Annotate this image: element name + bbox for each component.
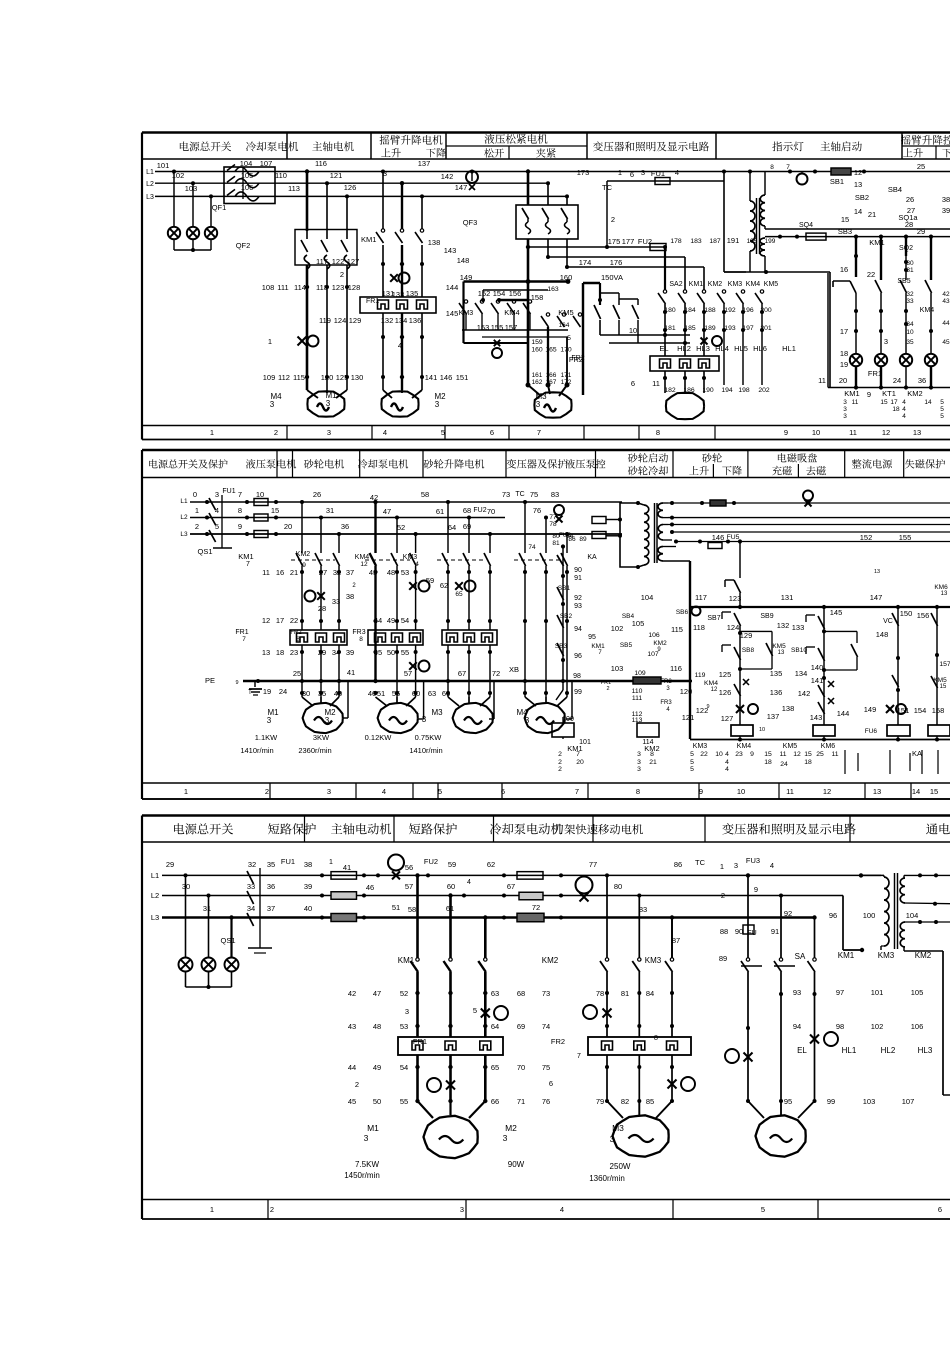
fast branch drops — [605, 873, 674, 958]
svg-text:93: 93 — [793, 988, 801, 997]
lamp number row1 — [664, 307, 772, 314]
svg-text:KM1: KM1 — [844, 389, 859, 398]
svg-text:96: 96 — [829, 911, 837, 920]
svg-text:8: 8 — [770, 164, 774, 171]
start column KM3 upper — [725, 539, 742, 607]
switch QS1 panel2 — [197, 495, 232, 556]
svg-text:132: 132 — [777, 621, 790, 630]
M2 mid wires — [381, 245, 424, 297]
svg-text:90W: 90W — [508, 1160, 525, 1169]
svg-text:17: 17 — [276, 616, 284, 625]
lift contacts — [514, 544, 568, 566]
switch SA p3 — [719, 952, 816, 972]
pump numbers r3 — [262, 648, 354, 678]
svg-text:QF3: QF3 — [463, 218, 478, 227]
rail L3 panel1 — [146, 194, 567, 201]
number 163 label — [547, 286, 559, 293]
svg-text:158: 158 — [531, 293, 544, 302]
coil VC p2 — [864, 705, 910, 739]
svg-text:118: 118 — [693, 623, 705, 632]
signal lamp 3 p1 — [205, 227, 217, 239]
svg-text:FR3: FR3 — [352, 629, 365, 636]
svg-text:3: 3 — [884, 337, 888, 346]
svg-text:20: 20 — [284, 522, 292, 531]
svg-text:99: 99 — [574, 689, 582, 696]
M1 wires — [305, 265, 349, 390]
svg-text:5: 5 — [940, 406, 944, 413]
wheel numbers r1 — [369, 568, 409, 577]
svg-text:102: 102 — [611, 624, 624, 633]
svg-text:L2: L2 — [151, 891, 159, 900]
svg-text:132: 132 — [381, 316, 394, 325]
svg-text:10: 10 — [629, 326, 637, 335]
svg-text:58: 58 — [421, 490, 429, 499]
svg-text:4: 4 — [215, 506, 219, 515]
svg-text:SB3: SB3 — [838, 227, 852, 236]
svg-text:38: 38 — [346, 592, 354, 601]
svg-text:24: 24 — [780, 761, 788, 768]
motor M4 p3 — [756, 1115, 806, 1156]
svg-text:195: 195 — [747, 238, 758, 245]
indicator lamp 1 — [850, 354, 862, 388]
panel 2 header band — [142, 450, 950, 478]
svg-text:FU1: FU1 — [651, 169, 665, 178]
svg-text:156: 156 — [917, 611, 930, 620]
svg-text:89: 89 — [719, 954, 727, 963]
svg-text:6: 6 — [501, 787, 505, 796]
svg-text:18: 18 — [804, 759, 812, 766]
pump numbers r1 — [262, 568, 354, 577]
svg-text:112: 112 — [278, 373, 290, 382]
svg-text:KM3: KM3 — [728, 281, 743, 288]
svg-text:144: 144 — [837, 709, 850, 718]
QF3 branch drops — [526, 169, 569, 205]
svg-text:63: 63 — [491, 989, 499, 998]
svg-text:10: 10 — [715, 751, 723, 758]
svg-text:L2: L2 — [180, 514, 188, 521]
signal lamp 2 p1 — [187, 227, 199, 239]
svg-text:25: 25 — [816, 751, 824, 758]
svg-text:9: 9 — [867, 390, 871, 399]
rail L1 panel1 — [146, 169, 950, 176]
svg-text:71: 71 — [517, 1097, 525, 1106]
svg-text:109: 109 — [263, 373, 276, 382]
svg-text:129: 129 — [349, 316, 362, 325]
svg-text:1: 1 — [329, 859, 333, 866]
svg-text:L3: L3 — [146, 194, 154, 201]
svg-text:84: 84 — [646, 989, 654, 998]
interlock rail — [464, 279, 571, 358]
svg-text:0.75KW: 0.75KW — [415, 733, 443, 742]
svg-text:94: 94 — [793, 1022, 801, 1031]
svg-text:7: 7 — [246, 561, 250, 568]
svg-text:M2: M2 — [505, 1123, 517, 1133]
motor M3 leads — [528, 385, 567, 396]
coil KM2 p2 — [637, 723, 660, 753]
lamp marks p3 — [725, 1032, 838, 1063]
svg-text:91: 91 — [574, 575, 582, 582]
svg-text:65: 65 — [455, 591, 463, 598]
svg-text:25: 25 — [917, 162, 925, 171]
motor C leads — [448, 681, 494, 719]
svg-text:52: 52 — [400, 989, 408, 998]
svg-text:3: 3 — [666, 686, 670, 692]
svg-text:6: 6 — [938, 1205, 942, 1214]
control bus horizontal — [690, 593, 950, 609]
svg-text:11: 11 — [779, 751, 786, 758]
svg-text:KM2: KM2 — [542, 956, 559, 965]
svg-text:16: 16 — [276, 568, 284, 577]
svg-text:97: 97 — [836, 988, 844, 997]
svg-text:3: 3 — [215, 490, 219, 499]
control rail 28 — [765, 220, 950, 229]
svg-text:7: 7 — [238, 490, 242, 499]
motor M2 — [381, 391, 418, 416]
svg-text:FU1: FU1 — [281, 857, 295, 866]
panel 3 footer band — [142, 1200, 950, 1220]
svg-text:35: 35 — [318, 689, 326, 698]
cross ref table p2 — [558, 750, 938, 774]
svg-text:KM2: KM2 — [296, 551, 311, 558]
svg-text:96: 96 — [574, 653, 582, 660]
svg-text:6: 6 — [630, 170, 634, 179]
svg-text:KM3: KM3 — [645, 956, 662, 965]
panel 2 outer frame — [142, 450, 950, 799]
svg-text:SQ2: SQ2 — [899, 245, 913, 252]
svg-text:107: 107 — [260, 159, 273, 168]
svg-text:95: 95 — [784, 1097, 792, 1106]
contactor KM3 p2 — [403, 553, 491, 568]
motor M4 leads p3 — [748, 1101, 815, 1118]
svg-text:151: 151 — [897, 706, 910, 715]
svg-text:103: 103 — [185, 184, 198, 193]
svg-text:196: 196 — [742, 307, 754, 314]
svg-text:93: 93 — [574, 603, 582, 610]
svg-text:KM3: KM3 — [403, 554, 418, 561]
svg-text:SB7: SB7 — [707, 615, 720, 622]
svg-text:13: 13 — [941, 591, 948, 597]
panel 3 outer frame — [142, 816, 950, 1220]
svg-text:67: 67 — [458, 669, 466, 678]
indicator lamp 3 — [900, 354, 912, 388]
svg-text:152: 152 — [860, 533, 873, 542]
svg-text:9: 9 — [238, 522, 242, 531]
panel 1 outer frame — [142, 133, 950, 440]
svg-text:119: 119 — [695, 672, 706, 679]
svg-text:189: 189 — [704, 325, 716, 332]
main wires upper p3 — [415, 972, 487, 1037]
svg-text:78: 78 — [596, 989, 604, 998]
svg-text:21: 21 — [649, 759, 657, 766]
svg-text:KM3: KM3 — [693, 743, 708, 750]
svg-text:138: 138 — [428, 238, 441, 247]
svg-text:FU2: FU2 — [473, 507, 486, 514]
svg-text:106: 106 — [911, 1022, 924, 1031]
svg-text:37: 37 — [267, 904, 275, 913]
svg-text:36: 36 — [918, 376, 926, 385]
svg-text:HL1: HL1 — [782, 344, 796, 353]
svg-text:KM5: KM5 — [933, 677, 947, 684]
svg-text:5: 5 — [473, 1006, 477, 1015]
numbers 142 147 — [441, 172, 468, 192]
svg-text:53: 53 — [400, 1022, 408, 1031]
svg-text:60: 60 — [412, 689, 420, 698]
motor M2 leads — [383, 390, 422, 398]
svg-text:185: 185 — [684, 325, 696, 332]
svg-text:141: 141 — [425, 373, 438, 382]
svg-text:30: 30 — [182, 882, 190, 891]
svg-text:74: 74 — [528, 544, 536, 551]
lighting motor wires — [663, 371, 706, 393]
svg-text:HL2: HL2 — [677, 344, 691, 353]
svg-text:123: 123 — [332, 283, 345, 292]
clamp contact group 1 — [459, 289, 521, 317]
svg-text:190: 190 — [702, 387, 714, 394]
top rail fittings — [770, 164, 866, 185]
svg-text:VC: VC — [883, 618, 893, 625]
svg-text:7.5KW: 7.5KW — [355, 1160, 379, 1169]
lift wires — [458, 566, 569, 697]
svg-text:160: 160 — [531, 347, 543, 354]
p3 row3 numbers — [247, 903, 647, 914]
svg-text:101: 101 — [157, 161, 170, 170]
svg-text:HL3: HL3 — [918, 1046, 933, 1055]
svg-text:10: 10 — [759, 727, 765, 733]
svg-text:67: 67 — [507, 882, 515, 891]
svg-text:128: 128 — [348, 283, 361, 292]
M2 numbers above FR1 — [382, 289, 419, 299]
svg-text:4: 4 — [467, 879, 471, 886]
svg-text:1450r/min: 1450r/min — [344, 1171, 380, 1180]
svg-text:KA: KA — [912, 749, 922, 758]
svg-text:68: 68 — [463, 506, 471, 515]
indicator circle on L1 p1 — [466, 170, 478, 191]
motor D lift — [525, 703, 565, 733]
svg-text:SB8: SB8 — [742, 647, 755, 654]
svg-text:137: 137 — [418, 159, 431, 168]
svg-text:SQ1a: SQ1a — [898, 213, 918, 222]
svg-text:120: 120 — [680, 687, 693, 696]
svg-text:105: 105 — [241, 171, 254, 180]
svg-text:188: 188 — [704, 307, 716, 314]
svg-text:QF2: QF2 — [236, 241, 251, 250]
svg-text:44: 44 — [348, 1063, 356, 1072]
svg-text:177: 177 — [622, 237, 635, 246]
svg-text:122: 122 — [332, 257, 345, 266]
svg-text:58: 58 — [408, 905, 416, 914]
p3 row2 numbers — [247, 879, 622, 892]
svg-text:FR1: FR1 — [868, 369, 882, 378]
svg-text:29: 29 — [166, 860, 174, 869]
svg-text:KM1: KM1 — [591, 643, 605, 650]
control feed rail c — [565, 258, 704, 269]
svg-text:T: T — [248, 690, 252, 696]
svg-text:144: 144 — [446, 283, 459, 292]
svg-text:103: 103 — [611, 664, 624, 673]
M2 branch drops — [381, 169, 424, 229]
svg-text:M3: M3 — [612, 1123, 624, 1133]
svg-text:107: 107 — [902, 1097, 915, 1106]
svg-text:8: 8 — [656, 428, 660, 437]
svg-text:82: 82 — [621, 1097, 629, 1106]
p3 lamp on L1 — [376, 855, 404, 880]
svg-text:31: 31 — [203, 904, 211, 913]
svg-text:SB4: SB4 — [888, 185, 902, 194]
svg-text:7: 7 — [576, 751, 580, 758]
panel 3 header band — [142, 816, 950, 843]
svg-text:16: 16 — [840, 265, 848, 274]
svg-text:154: 154 — [914, 706, 927, 715]
secondary rails p2 — [668, 491, 950, 549]
svg-text:104: 104 — [240, 159, 253, 168]
control column 2 labels — [601, 613, 673, 724]
svg-text:59: 59 — [448, 860, 456, 869]
svg-text:28: 28 — [318, 604, 326, 613]
svg-text:5: 5 — [690, 759, 694, 766]
svg-text:134: 134 — [795, 669, 808, 678]
svg-text:42: 42 — [348, 989, 356, 998]
motor A pump — [303, 703, 343, 733]
svg-text:L1: L1 — [146, 169, 154, 176]
svg-text:117: 117 — [695, 593, 707, 602]
svg-text:74: 74 — [542, 1022, 550, 1031]
svg-text:2: 2 — [558, 759, 562, 766]
svg-text:134: 134 — [395, 316, 408, 325]
svg-text:KT1: KT1 — [882, 389, 896, 398]
svg-text:KM2: KM2 — [708, 281, 723, 288]
fast wires lower — [605, 1055, 674, 1103]
svg-text:63: 63 — [428, 689, 436, 698]
lighting braid left bus — [598, 283, 638, 305]
svg-text:124: 124 — [334, 316, 347, 325]
svg-text:200: 200 — [760, 307, 772, 314]
control column SB1 SB2 SB3 — [555, 544, 605, 723]
lamp numbers p3 — [784, 988, 933, 1106]
lighting labels — [672, 909, 837, 945]
svg-text:113: 113 — [288, 184, 300, 193]
svg-text:KM1: KM1 — [869, 238, 884, 247]
svg-text:11: 11 — [818, 376, 826, 385]
svg-text:138: 138 — [782, 704, 795, 713]
svg-text:18: 18 — [840, 349, 848, 358]
svg-text:HL1: HL1 — [842, 1046, 857, 1055]
svg-text:94: 94 — [574, 626, 582, 633]
svg-text:1: 1 — [268, 337, 272, 346]
svg-text:36: 36 — [267, 882, 275, 891]
panel 1 header band — [142, 133, 950, 160]
svg-text:181: 181 — [664, 325, 676, 332]
wheel numbers r2 — [374, 616, 409, 625]
svg-text:62: 62 — [487, 860, 495, 869]
svg-text:47: 47 — [383, 507, 391, 516]
svg-text:37: 37 — [346, 568, 354, 577]
svg-text:HL5: HL5 — [734, 344, 748, 353]
svg-text:183: 183 — [690, 238, 702, 245]
svg-text:TC: TC — [602, 183, 613, 192]
svg-text:75: 75 — [542, 1063, 550, 1072]
svg-text:4: 4 — [902, 406, 906, 413]
svg-text:39: 39 — [304, 882, 312, 891]
svg-text:52: 52 — [397, 523, 405, 532]
coil KA p2 — [897, 706, 950, 758]
svg-text:3: 3 — [734, 861, 738, 870]
control feed rail a — [526, 237, 667, 251]
svg-text:106: 106 — [648, 632, 660, 639]
svg-text:1.1KW: 1.1KW — [255, 733, 278, 742]
svg-text:143: 143 — [444, 246, 457, 255]
QF3 output wires — [528, 239, 567, 281]
svg-text:143: 143 — [810, 713, 823, 722]
svg-text:38: 38 — [304, 860, 312, 869]
svg-text:117: 117 — [316, 257, 328, 266]
svg-text:XB: XB — [509, 665, 519, 674]
indicator column 3 — [897, 237, 914, 354]
svg-text:60: 60 — [447, 882, 455, 891]
svg-text:4: 4 — [382, 787, 386, 796]
svg-text:45: 45 — [348, 1097, 356, 1106]
svg-text:147: 147 — [455, 183, 468, 192]
svg-text:35: 35 — [906, 339, 914, 346]
svg-text:45: 45 — [942, 339, 950, 346]
svg-text:150VA: 150VA — [601, 273, 623, 282]
svg-text:7: 7 — [537, 428, 541, 437]
svg-text:KM3: KM3 — [878, 951, 895, 960]
svg-text:124: 124 — [727, 623, 740, 632]
svg-text:24: 24 — [279, 687, 287, 696]
svg-text:2: 2 — [265, 787, 269, 796]
svg-text:202: 202 — [758, 387, 770, 394]
svg-text:166: 166 — [546, 372, 557, 379]
rail L2 panel2 — [180, 514, 505, 521]
motor M1 — [307, 391, 344, 417]
svg-text:2: 2 — [274, 428, 278, 437]
svg-text:150: 150 — [900, 609, 913, 618]
svg-text:98: 98 — [836, 1022, 844, 1031]
svg-text:SB4: SB4 — [622, 613, 635, 620]
svg-text:17: 17 — [840, 327, 848, 336]
panel 1 footer numbers — [210, 428, 921, 437]
svg-text:22: 22 — [290, 616, 298, 625]
lighting motor — [666, 393, 704, 419]
motor M3 label — [535, 392, 547, 409]
clutch in lamp area — [701, 336, 723, 346]
svg-text:125: 125 — [719, 670, 732, 679]
svg-text:2: 2 — [606, 686, 609, 692]
svg-text:73: 73 — [542, 989, 550, 998]
secondary return wire — [724, 270, 830, 388]
panel 2 header titles — [149, 453, 945, 475]
indicator lamp 2 — [875, 354, 887, 388]
svg-text:FR3: FR3 — [660, 700, 672, 706]
svg-text:43: 43 — [369, 568, 377, 577]
numbers row 1101 — [348, 1097, 550, 1106]
TC p3 top labels — [674, 856, 774, 900]
svg-text:81: 81 — [621, 989, 629, 998]
fast brake2 — [668, 1077, 696, 1091]
svg-text:11: 11 — [786, 787, 794, 796]
svg-text:27: 27 — [319, 568, 327, 577]
svg-text:33: 33 — [332, 597, 340, 606]
lighting feed wire 3 — [812, 915, 816, 958]
svg-text:147: 147 — [870, 593, 883, 602]
svg-text:167: 167 — [546, 379, 557, 386]
svg-text:43: 43 — [942, 298, 950, 305]
svg-text:2: 2 — [355, 1080, 359, 1089]
svg-text:15: 15 — [841, 215, 849, 224]
svg-text:4: 4 — [383, 428, 387, 437]
pump clutch p2 — [305, 583, 357, 613]
svg-text:KM5: KM5 — [783, 743, 798, 750]
